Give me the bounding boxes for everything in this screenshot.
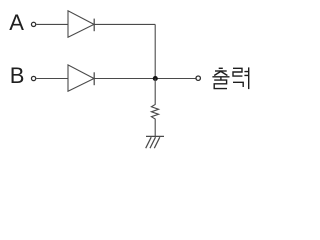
terminal A <box>31 22 35 26</box>
wire D2 cathode to output <box>94 78 195 80</box>
output terminal <box>196 76 200 80</box>
wire B input <box>36 78 68 80</box>
terminal B <box>31 76 35 80</box>
char 출 <box>219 67 223 69</box>
diode D2 <box>68 65 94 91</box>
char 력 <box>233 68 242 76</box>
junction node <box>153 76 158 81</box>
wire D1 cathode to corner <box>94 23 155 25</box>
svg-text:B: B <box>10 63 25 88</box>
resistor R1 <box>151 79 158 137</box>
wire A input <box>36 23 68 25</box>
diode D1 <box>68 11 94 37</box>
ground <box>146 136 164 148</box>
wire vertical to node <box>154 24 156 78</box>
output label "출력" drawn as strokes <box>212 67 248 89</box>
svg-text:A: A <box>9 10 24 35</box>
